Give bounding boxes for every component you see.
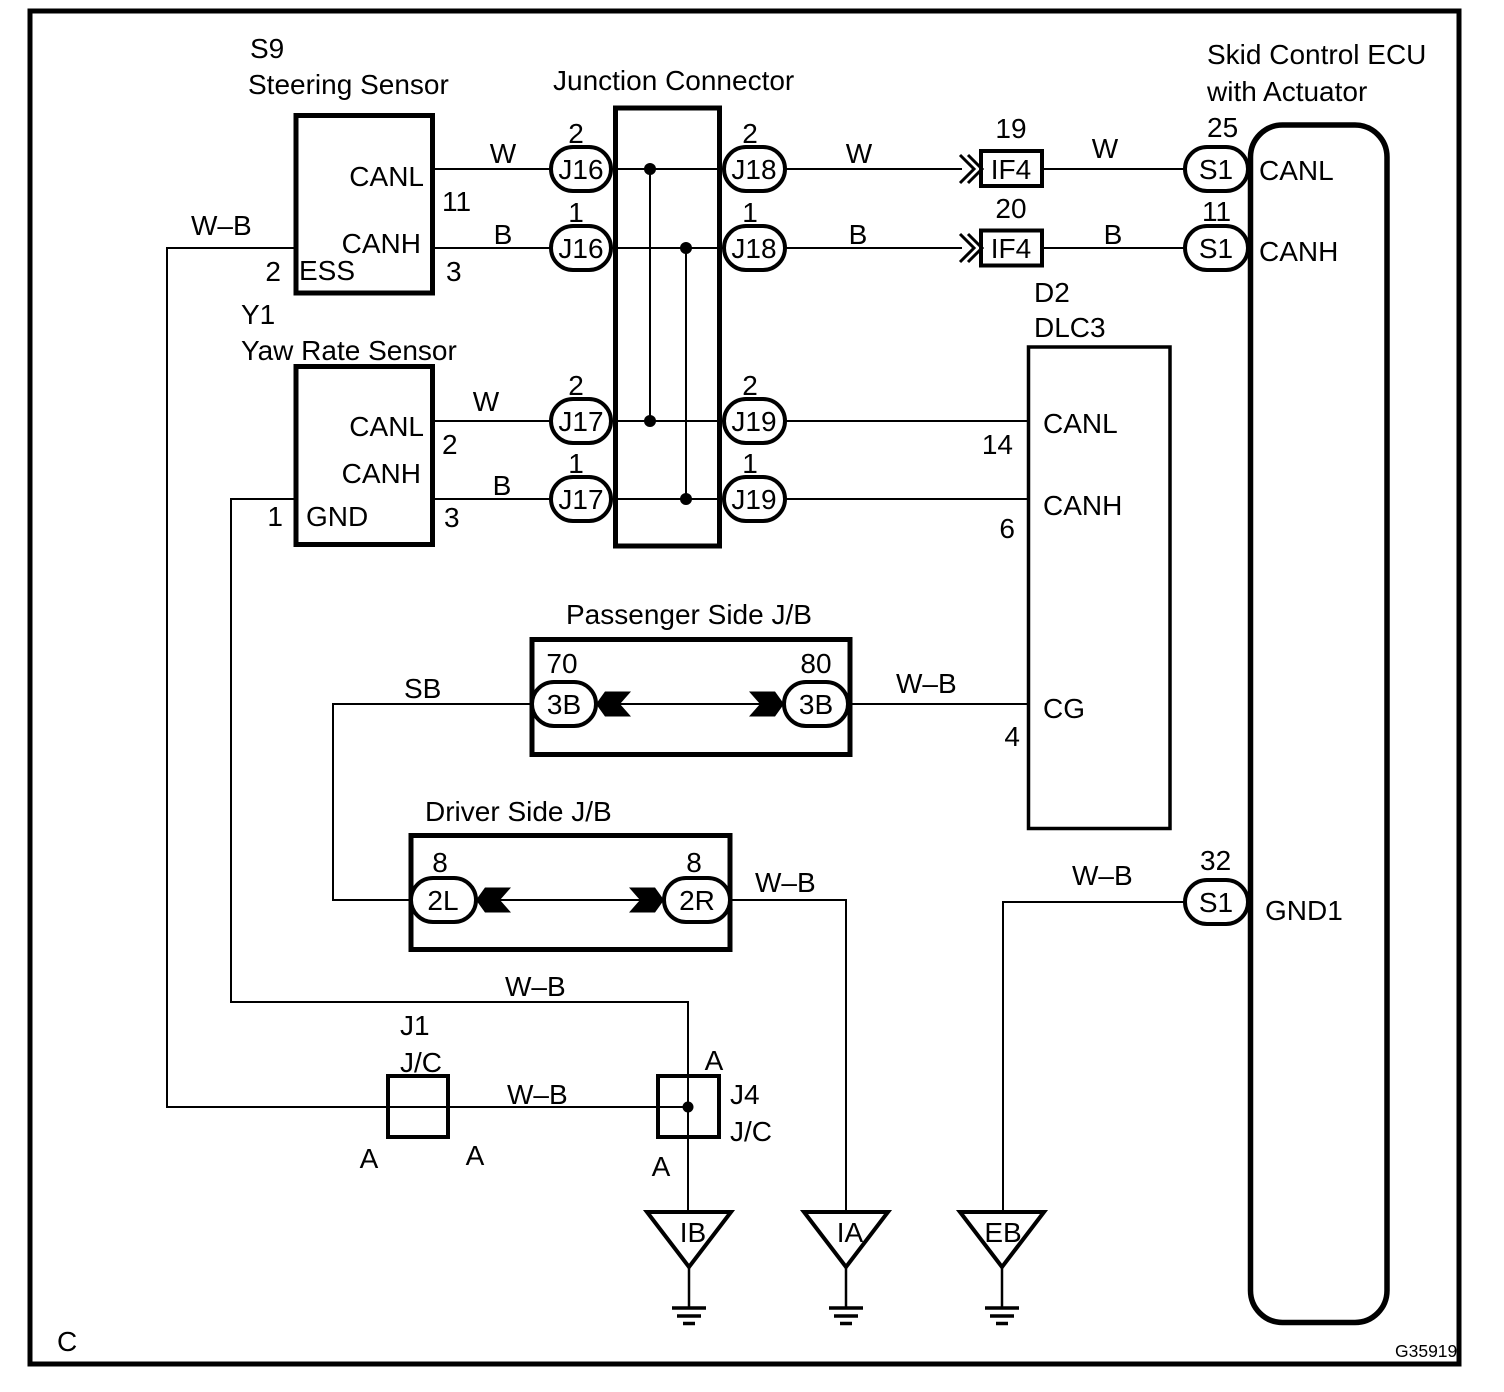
svg-text:IA: IA	[837, 1217, 864, 1248]
svg-text:W–B: W–B	[755, 867, 816, 898]
connector 3B pin80	[784, 682, 848, 726]
ground triangle EB	[960, 1212, 1044, 1267]
svg-text:Y1: Y1	[241, 299, 275, 330]
connector IF4 pin20 box	[981, 231, 1042, 266]
svg-text:J19: J19	[731, 484, 776, 515]
svg-text:J1: J1	[400, 1010, 430, 1041]
connector J16 pin2	[551, 147, 611, 191]
wire W-B from steering ESS pin2 down through J1 to J4	[167, 248, 688, 1107]
steering sensor S9 box	[296, 116, 433, 294]
svg-text:GND: GND	[306, 501, 368, 532]
svg-text:Yaw Rate Sensor: Yaw Rate Sensor	[241, 335, 457, 366]
svg-text:S9: S9	[250, 33, 284, 64]
svg-text:W–B: W–B	[505, 971, 566, 1002]
svg-text:SB: SB	[404, 673, 441, 704]
svg-text:4: 4	[1004, 721, 1020, 752]
svg-text:3B: 3B	[547, 689, 581, 720]
arrow left passenger J/B	[596, 692, 631, 717]
svg-text:3: 3	[444, 502, 460, 533]
wire IF4(19) to S1(25)	[1044, 168, 1185, 170]
svg-text:W: W	[473, 386, 500, 417]
connector J19 pin2	[724, 399, 785, 443]
svg-text:EB: EB	[984, 1217, 1021, 1248]
svg-text:CANH: CANH	[342, 458, 421, 489]
svg-text:CANL: CANL	[1259, 155, 1334, 186]
svg-text:S1: S1	[1199, 233, 1233, 264]
svg-text:11: 11	[442, 186, 471, 217]
wire S1(32) GND1 down to ground EB	[1003, 902, 1185, 1210]
svg-text:W: W	[846, 138, 873, 169]
svg-text:2: 2	[742, 118, 758, 149]
svg-text:A: A	[360, 1143, 379, 1174]
svg-text:19: 19	[995, 113, 1026, 144]
svg-text:CANH: CANH	[1043, 490, 1122, 521]
wire yaw CANL to J17-2	[432, 420, 551, 422]
svg-text:C: C	[57, 1326, 77, 1357]
svg-text:J19: J19	[731, 406, 776, 437]
svg-text:2: 2	[265, 256, 281, 287]
svg-text:S1: S1	[1199, 887, 1233, 918]
svg-text:W–B: W–B	[896, 668, 957, 699]
svg-text:11: 11	[1202, 196, 1231, 227]
svg-text:J16: J16	[558, 154, 603, 185]
svg-text:W–B: W–B	[1072, 860, 1133, 891]
wire 3B(80) to DLC3 CG	[848, 703, 1027, 705]
ground triangle IA	[804, 1212, 888, 1267]
connector J18 pin2	[724, 147, 785, 191]
junction connector internal net A	[644, 163, 656, 427]
yaw rate sensor Y1 box	[296, 367, 433, 545]
svg-text:CANH: CANH	[1259, 236, 1338, 267]
svg-text:D2: D2	[1034, 277, 1070, 308]
svg-text:B: B	[1104, 219, 1123, 250]
svg-text:J18: J18	[731, 154, 776, 185]
wire 2R down to ground IA	[730, 900, 846, 1210]
svg-text:2: 2	[442, 429, 458, 460]
wire SB from 3B(70) down to 2L	[333, 704, 532, 900]
svg-text:Junction Connector: Junction Connector	[553, 65, 794, 96]
wire between 3B ovals	[596, 703, 784, 705]
svg-text:3B: 3B	[799, 689, 833, 720]
junction connector J4 box	[658, 1076, 719, 1137]
connector J18 pin1	[724, 226, 785, 270]
svg-text:70: 70	[546, 648, 577, 679]
svg-text:CANL: CANL	[349, 411, 424, 442]
svg-text:A: A	[652, 1151, 671, 1182]
driver side J/B box	[411, 836, 730, 950]
wire J17-2 to J19-2	[611, 420, 724, 422]
svg-text:1: 1	[267, 501, 283, 532]
svg-text:B: B	[494, 219, 513, 250]
ground symbol under IA	[829, 1267, 863, 1324]
svg-text:1: 1	[568, 197, 584, 228]
svg-text:Passenger Side J/B: Passenger Side J/B	[566, 599, 812, 630]
connector 2L pin8	[411, 878, 476, 922]
connector J17 pin2	[551, 399, 611, 443]
svg-text:J4: J4	[730, 1079, 760, 1110]
wire IF4(20) to S1(11)	[1044, 247, 1185, 249]
svg-text:W–B: W–B	[507, 1079, 568, 1110]
svg-text:W: W	[490, 138, 517, 169]
svg-text:W–B: W–B	[191, 210, 252, 241]
connector S1 pin32	[1185, 880, 1248, 924]
junction connector box	[616, 108, 720, 546]
svg-text:3: 3	[446, 256, 462, 287]
ground triangle IB	[647, 1212, 731, 1267]
svg-text:B: B	[493, 470, 512, 501]
svg-text:2R: 2R	[679, 885, 715, 916]
junction connector internal net B	[680, 242, 692, 505]
svg-text:IB: IB	[680, 1217, 706, 1248]
svg-text:2: 2	[568, 118, 584, 149]
ground symbol under EB	[985, 1267, 1019, 1324]
wire yaw CANH to J17-1	[432, 498, 551, 500]
svg-text:S1: S1	[1199, 154, 1233, 185]
svg-text:ESS: ESS	[299, 255, 355, 286]
connector J16 pin1	[551, 226, 611, 270]
connector S1 pin25	[1185, 147, 1248, 191]
svg-text:Skid Control ECU: Skid Control ECU	[1207, 39, 1426, 70]
wire J17-1 to J19-1	[611, 498, 724, 500]
svg-text:20: 20	[995, 193, 1026, 224]
wire between 2L and 2R	[476, 899, 664, 901]
svg-text:J/C: J/C	[400, 1047, 442, 1078]
svg-text:8: 8	[432, 847, 448, 878]
svg-text:CG: CG	[1043, 693, 1085, 724]
svg-text:2: 2	[742, 370, 758, 401]
svg-text:A: A	[466, 1140, 485, 1171]
svg-text:B: B	[849, 219, 868, 250]
chevrons IF4 pin20	[960, 234, 982, 262]
svg-text:80: 80	[800, 648, 831, 679]
svg-text:A: A	[705, 1045, 724, 1076]
wire J18-2 to IF4(19)	[785, 168, 962, 170]
svg-text:6: 6	[999, 513, 1015, 544]
wire J4 through to ground IB	[687, 1074, 689, 1210]
svg-text:8: 8	[686, 847, 702, 878]
connector 2R pin8	[664, 878, 730, 922]
svg-text:1: 1	[742, 448, 758, 479]
svg-text:32: 32	[1200, 845, 1231, 876]
svg-text:DLC3: DLC3	[1034, 312, 1106, 343]
wire J16-2 to J18-2	[611, 168, 724, 170]
connector S1 pin11	[1185, 226, 1248, 270]
connector 3B pin70	[532, 682, 596, 726]
svg-text:1: 1	[742, 197, 758, 228]
svg-text:1: 1	[568, 448, 584, 479]
svg-text:IF4: IF4	[991, 233, 1031, 264]
svg-text:2L: 2L	[427, 885, 458, 916]
svg-text:IF4: IF4	[991, 154, 1031, 185]
svg-text:J17: J17	[558, 484, 603, 515]
svg-text:CANL: CANL	[349, 161, 424, 192]
arrow right driver J/B	[629, 888, 664, 913]
arrow left driver J/B	[476, 888, 511, 913]
svg-text:GND1: GND1	[1265, 895, 1343, 926]
svg-text:Steering Sensor: Steering Sensor	[248, 69, 449, 100]
junction dot in J4	[683, 1102, 694, 1113]
arrow right passenger J/B	[749, 692, 784, 717]
passenger side J/B box	[532, 640, 850, 755]
skid control ECU box	[1251, 125, 1388, 1323]
wire J16-1 to J18-1	[611, 247, 724, 249]
svg-text:W: W	[1092, 133, 1119, 164]
wire steering CANH to J16-1	[432, 247, 551, 249]
svg-text:CANL: CANL	[1043, 408, 1118, 439]
svg-text:Driver Side J/B: Driver Side J/B	[425, 796, 612, 827]
svg-text:G35919: G35919	[1395, 1341, 1457, 1361]
chevrons IF4 pin19	[960, 155, 982, 183]
wire J19-2 to DLC3 pin14	[785, 420, 1027, 422]
svg-text:with Actuator: with Actuator	[1206, 76, 1367, 107]
svg-text:J/C: J/C	[730, 1116, 772, 1147]
wire J19-1 to DLC3 pin6	[785, 498, 1027, 500]
ground symbol under IB	[672, 1267, 706, 1324]
svg-text:14: 14	[982, 429, 1013, 460]
svg-text:J16: J16	[558, 233, 603, 264]
junction connector J1 box	[388, 1076, 448, 1137]
DLC3 D2 box	[1029, 347, 1171, 829]
svg-text:2: 2	[568, 370, 584, 401]
svg-text:J17: J17	[558, 406, 603, 437]
svg-text:25: 25	[1207, 112, 1238, 143]
connector J19 pin1	[724, 477, 785, 521]
connector J17 pin1	[551, 477, 611, 521]
wire yaw GND pin1 down and across to J4	[231, 499, 688, 1076]
wire J18-1 to IF4(20)	[785, 247, 962, 249]
svg-text:J18: J18	[731, 233, 776, 264]
wire steering CANL to J16-2	[432, 168, 551, 170]
connector IF4 pin19 box	[981, 151, 1042, 186]
